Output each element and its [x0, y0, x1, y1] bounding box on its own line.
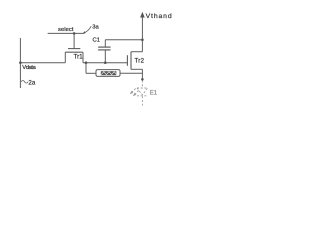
- svg-text:Vdata: Vdata: [22, 65, 36, 71]
- svg-text:2a: 2a: [28, 80, 35, 87]
- svg-text:E1: E1: [150, 91, 158, 97]
- svg-text:Tr2: Tr2: [134, 58, 144, 64]
- svg-text:select: select: [58, 27, 74, 33]
- svg-text:3a: 3a: [92, 24, 99, 30]
- svg-text:Tr1: Tr1: [74, 54, 84, 60]
- svg-text:Vthand: Vthand: [146, 13, 172, 20]
- svg-text:C1: C1: [93, 38, 100, 44]
